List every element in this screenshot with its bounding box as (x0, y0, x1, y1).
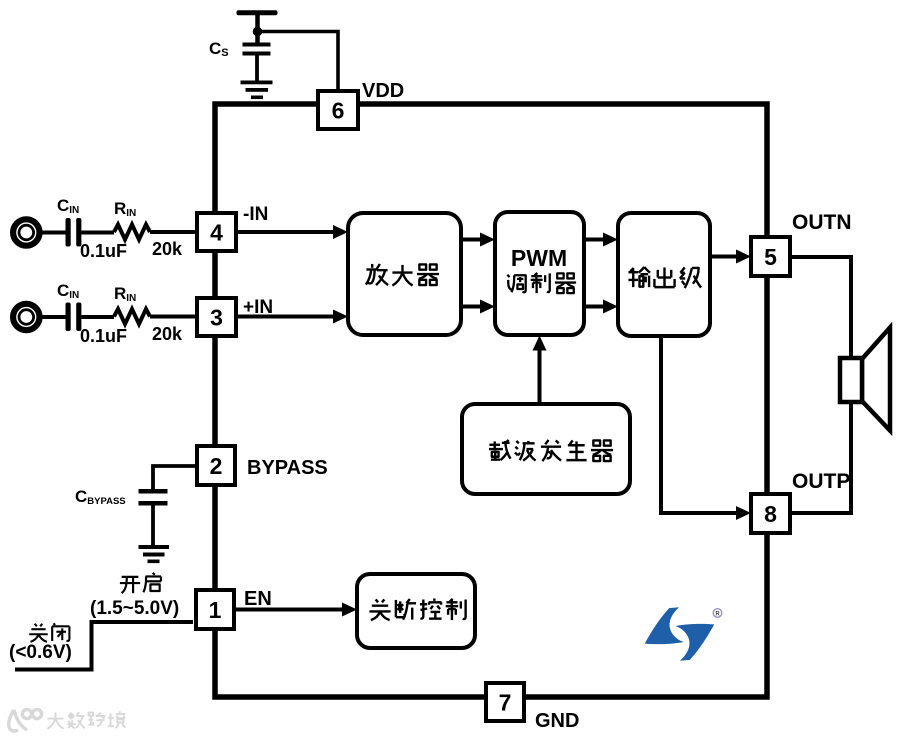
ground (139, 545, 170, 549)
audio input jack J1 (13, 219, 39, 245)
amplifier block (FangDaQi) (348, 213, 461, 335)
audio input jack J2 (13, 304, 39, 330)
svg-text:RIN: RIN (114, 199, 136, 219)
svg-text:RIN: RIN (114, 284, 136, 304)
svg-text:VDD: VDD (362, 80, 404, 102)
watermark text (48, 713, 64, 729)
pin 8 (751, 494, 790, 533)
wire pin5/pin8 to speaker (790, 257, 851, 513)
wire to amplifier (ch1) (236, 230, 333, 234)
wire (150, 230, 197, 234)
svg-text:-IN: -IN (243, 204, 268, 225)
svg-text:OUTP: OUTP (792, 470, 850, 493)
svg-text:CS: CS (209, 39, 229, 59)
PWM modulator block (495, 212, 584, 335)
ground (241, 81, 273, 85)
wire PWM to output stage (upper) (584, 238, 603, 242)
capacitor CIN 0.1uF (ch2) (66, 303, 71, 332)
power supply rail (237, 10, 278, 15)
pin 3 (197, 298, 236, 336)
svg-text:20k: 20k (152, 239, 183, 259)
wire carrier to PWM (538, 351, 542, 405)
svg-text:GND: GND (535, 710, 579, 732)
svg-text:0.1uF: 0.1uF (80, 241, 127, 261)
wire (150, 315, 197, 319)
resistor RIN 20k (ch2) (114, 309, 150, 324)
enable step waveform (15, 622, 193, 670)
wire (151, 505, 155, 546)
wire (255, 55, 259, 81)
pin 6 (318, 91, 358, 129)
wire (81, 231, 114, 235)
svg-text:5: 5 (764, 244, 777, 270)
wire amp to PWM (upper) (461, 238, 480, 242)
svg-text:PWM: PWM (511, 245, 567, 271)
svg-text:BYPASS: BYPASS (247, 457, 328, 479)
capacitor CBYPASS (139, 489, 168, 494)
svg-text:8: 8 (764, 501, 777, 527)
shutdown control block (GuanDuanKongZhi) (357, 574, 475, 648)
pin 4 (197, 213, 236, 251)
svg-text:EN: EN (244, 588, 272, 610)
pin 1 (196, 590, 234, 629)
svg-text:7: 7 (499, 689, 512, 715)
svg-text:CBYPASS: CBYPASS (75, 487, 126, 507)
watermark icon (9, 709, 42, 731)
svg-text:1: 1 (209, 597, 222, 623)
node junction (253, 27, 263, 37)
IC U1 boundary (215, 104, 767, 697)
wire PWM to output stage (lower) (584, 305, 603, 309)
wire output stage to pin 5 (710, 255, 736, 259)
wire pin1 to shutdown control (233, 608, 342, 612)
svg-text:20k: 20k (152, 324, 183, 344)
pin 5 (751, 237, 790, 276)
resistor RIN 20k (ch1) (114, 225, 150, 240)
wire (257, 32, 338, 94)
svg-text:(1.5~5.0V): (1.5~5.0V) (90, 598, 179, 619)
svg-text:4: 4 (210, 219, 223, 245)
disable level annotation (GuanBi <0.6V) (29, 624, 47, 642)
svg-text:6: 6 (332, 97, 345, 123)
enable level annotation (KaiQi 1.5~5.0V) (120, 577, 140, 593)
capacitor CIN 0.1uF (ch1) (66, 218, 71, 247)
pin 2 (197, 446, 235, 485)
wire (42, 231, 66, 235)
svg-text:(<0.6V): (<0.6V) (9, 642, 72, 663)
manufacturer logo (645, 607, 722, 661)
svg-text:CIN: CIN (57, 281, 79, 301)
svg-text:2: 2 (210, 453, 223, 479)
wire output stage to pin 8 (661, 335, 737, 513)
wire to amplifier (ch2) (236, 315, 333, 319)
svg-text:3: 3 (210, 304, 223, 330)
svg-text:R: R (715, 612, 720, 618)
svg-text:OUTN: OUTN (792, 211, 852, 234)
wire amp to PWM (lower) (461, 305, 480, 309)
speaker LS1 (862, 328, 890, 431)
wire (81, 315, 114, 319)
capacitor Cs (243, 43, 271, 47)
pin 7 (486, 683, 524, 721)
wire (42, 315, 66, 319)
output stage block (ShuChuJi) (618, 213, 710, 336)
wire (255, 13, 260, 43)
wire pin2 to CBYPASS (153, 466, 197, 490)
svg-text:0.1uF: 0.1uF (80, 326, 127, 346)
carrier generator block (ZaiBoFaShengQi) (462, 404, 630, 494)
svg-text:CIN: CIN (57, 196, 79, 216)
